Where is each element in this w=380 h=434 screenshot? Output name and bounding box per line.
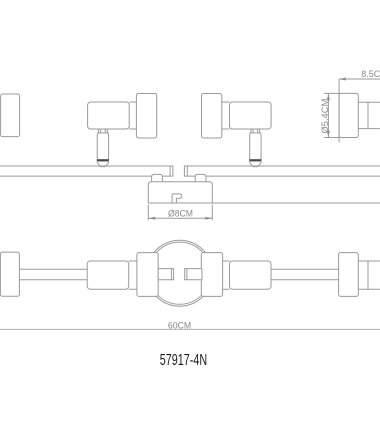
wire: front-view bar left segment [0, 166, 173, 176]
canopy dome bump left [152, 174, 163, 182]
dimension 8 extension lines [148, 205, 212, 221]
top view: head 4 neck [358, 261, 368, 289]
top view: head 2 body [87, 261, 129, 289]
spot head 3 body [230, 102, 272, 129]
top view: canopy outer circle [147, 240, 213, 306]
spot head 1 rim (left edge, partial) [1, 94, 20, 137]
top view: head 2 neck [129, 261, 137, 289]
dimension 8.5CM line [339, 78, 380, 80]
spot head 2 body [88, 102, 130, 129]
spot head 2 neck [129, 102, 136, 129]
svg-text:60CM: 60CM [168, 320, 191, 331]
spot head 2 stem prongs [98, 129, 107, 133]
cable clamp P mark [172, 194, 182, 203]
extension line head 4 [338, 79, 340, 142]
spot head 2 stem tip [97, 161, 108, 166]
dimension 5.4 arrows [327, 94, 330, 138]
top view: canopy inner circle [149, 242, 211, 304]
spot head 3 stem tip [250, 161, 261, 166]
spot head 3 front rim [202, 94, 222, 139]
top view: bar segment left [19, 269, 87, 280]
dimension 60CM line [0, 328, 380, 330]
top view: head 4 rim [339, 253, 359, 297]
bar stub right end cap [186, 269, 188, 280]
bar right segment end cap [186, 166, 188, 176]
top view: head 3 rim [201, 253, 222, 297]
dimension 8 line [148, 217, 212, 219]
dimension 5.4 line [327, 93, 329, 137]
spot head 2 front rim [136, 94, 156, 139]
canopy dome bump right [195, 174, 206, 182]
spot head 3 stem dark band [249, 159, 261, 161]
ceiling line through canopy bottom [148, 202, 380, 204]
top view: head 1 rim (partial) [0, 252, 19, 296]
svg-text:Ø5.4CM: Ø5.4CM [320, 99, 330, 134]
bar left segment end cap [169, 166, 171, 176]
svg-text:8.5CM: 8.5CM [361, 69, 380, 79]
spot head 4 neck [358, 102, 368, 128]
spot head 4 body (cut at right edge) [368, 102, 380, 128]
top view: bar segment right [271, 269, 339, 280]
top view: head 2 rim [137, 253, 158, 297]
spot head 2 stem dark band [97, 159, 109, 161]
svg-text:57917-4N: 57917-4N [160, 352, 207, 369]
dimension 8.5CM arrow [339, 78, 346, 81]
top view: bar stub right [185, 269, 202, 280]
top view: head 3 body [230, 261, 272, 289]
dimension 5.4 extension lines [324, 93, 339, 137]
spot head 2 stem [97, 133, 108, 160]
top view: head 4 body (cut at right edge) [368, 261, 380, 289]
bar stub left end cap [170, 269, 172, 280]
top view: head 3 neck [223, 261, 230, 289]
svg-text:Ø8CM: Ø8CM [168, 208, 193, 219]
spot head 3 stem [250, 133, 261, 160]
ceiling canopy box [148, 182, 212, 203]
top view: bar stub left [158, 269, 173, 280]
dimension 8 arrows [149, 217, 213, 220]
spot head 3 neck [222, 102, 230, 129]
spot head 4 front rim [339, 93, 358, 137]
wire: front-view bar right segment [184, 166, 380, 176]
spot head 3 stem prongs [251, 129, 260, 133]
